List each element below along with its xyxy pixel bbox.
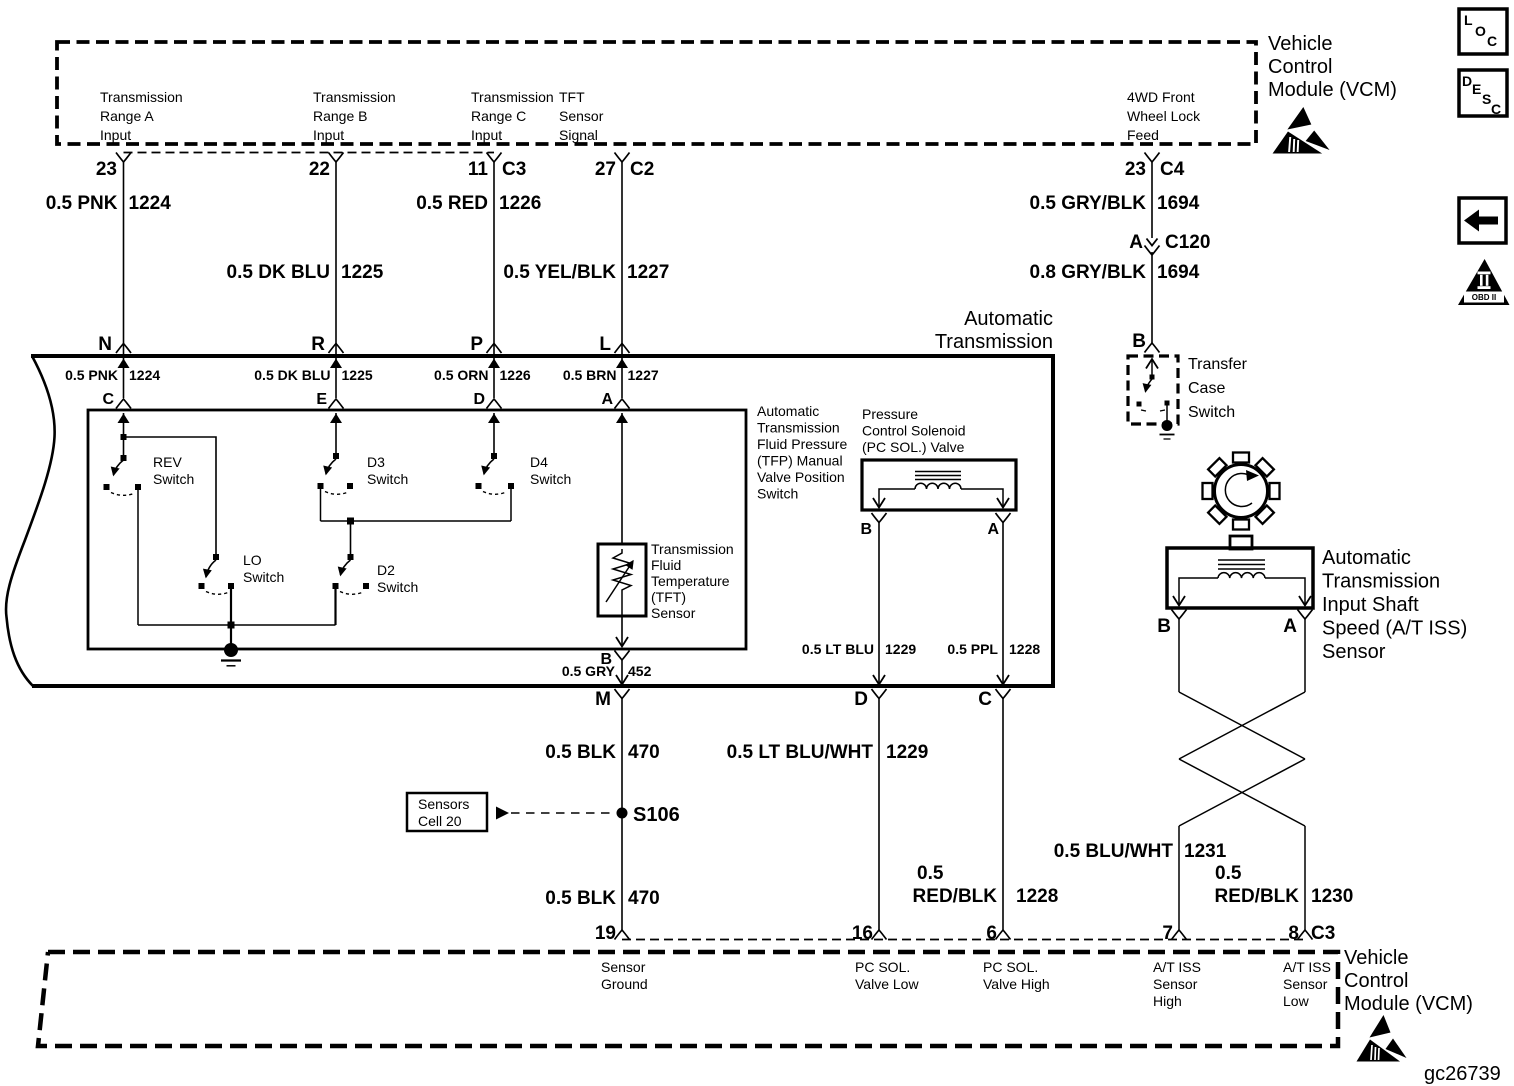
svg-text:PC SOL.: PC SOL.	[983, 959, 1038, 975]
svg-text:PC SOL.: PC SOL.	[855, 959, 910, 975]
svg-text:452: 452	[628, 663, 652, 679]
svg-text:Module (VCM): Module (VCM)	[1268, 79, 1397, 101]
svg-text:1694: 1694	[1157, 193, 1200, 214]
svg-text:1224: 1224	[129, 367, 160, 383]
svg-text:Input: Input	[313, 127, 344, 143]
svg-text:Valve High: Valve High	[983, 976, 1050, 992]
svg-text:8: 8	[1288, 923, 1299, 944]
svg-text:4WD Front: 4WD Front	[1127, 89, 1195, 105]
svg-text:C: C	[1491, 101, 1501, 117]
svg-text:Cell 20: Cell 20	[418, 813, 462, 829]
svg-text:Switch: Switch	[367, 471, 408, 487]
svg-text:Automatic: Automatic	[757, 403, 819, 419]
svg-text:0.5 DK BLU: 0.5 DK BLU	[227, 262, 330, 283]
svg-text:0.5 BLK: 0.5 BLK	[545, 742, 616, 763]
svg-text:1229: 1229	[885, 641, 916, 657]
svg-text:Speed (A/T ISS): Speed (A/T ISS)	[1322, 618, 1467, 640]
svg-text:Range C: Range C	[471, 108, 526, 124]
svg-text:O: O	[1475, 23, 1486, 39]
svg-text:Temperature: Temperature	[651, 573, 730, 589]
svg-text:D: D	[473, 391, 485, 408]
svg-text:1225: 1225	[341, 262, 384, 283]
svg-text:(PC SOL.) Valve: (PC SOL.) Valve	[862, 439, 965, 455]
svg-text:E: E	[1472, 81, 1481, 97]
svg-text:A/T ISS: A/T ISS	[1153, 959, 1201, 975]
svg-text:Sensor: Sensor	[1322, 641, 1386, 663]
svg-text:D2: D2	[377, 562, 395, 578]
svg-text:OBD II: OBD II	[1472, 293, 1496, 302]
svg-text:Sensor: Sensor	[1283, 976, 1328, 992]
svg-text:Valve Position: Valve Position	[757, 469, 845, 485]
svg-text:1229: 1229	[886, 742, 928, 763]
svg-text:L: L	[599, 334, 611, 355]
svg-text:0.5: 0.5	[1215, 863, 1242, 884]
svg-text:Pressure: Pressure	[862, 406, 918, 422]
svg-text:RED/BLK: RED/BLK	[913, 886, 998, 907]
svg-text:27: 27	[595, 159, 616, 180]
svg-text:Case: Case	[1188, 380, 1225, 397]
svg-text:1230: 1230	[1311, 886, 1353, 907]
svg-text:0.5 GRY/BLK: 0.5 GRY/BLK	[1030, 193, 1147, 214]
svg-text:Switch: Switch	[530, 471, 571, 487]
svg-text:C: C	[102, 391, 114, 408]
svg-text:(TFP) Manual: (TFP) Manual	[757, 453, 843, 469]
svg-text:C: C	[978, 689, 992, 710]
svg-text:A: A	[601, 391, 613, 408]
svg-text:470: 470	[628, 888, 660, 909]
svg-text:Sensor: Sensor	[559, 108, 604, 124]
svg-text:Feed: Feed	[1127, 127, 1159, 143]
svg-text:16: 16	[852, 923, 873, 944]
svg-text:22: 22	[309, 159, 330, 180]
svg-text:R: R	[311, 334, 325, 355]
svg-text:C2: C2	[630, 159, 654, 180]
svg-text:0.5 ORN: 0.5 ORN	[434, 367, 488, 383]
svg-text:D3: D3	[367, 454, 385, 470]
svg-text:Transmission: Transmission	[100, 89, 183, 105]
svg-text:Range B: Range B	[313, 108, 367, 124]
svg-text:Module (VCM): Module (VCM)	[1344, 993, 1473, 1015]
svg-text:C4: C4	[1160, 159, 1185, 180]
svg-text:19: 19	[595, 923, 616, 944]
svg-text:A/T ISS: A/T ISS	[1283, 959, 1331, 975]
svg-text:B: B	[860, 521, 872, 538]
svg-text:1227: 1227	[627, 262, 669, 283]
svg-text:0.5 DK BLU: 0.5 DK BLU	[254, 367, 330, 383]
svg-text:D4: D4	[530, 454, 548, 470]
svg-text:0.5: 0.5	[917, 863, 944, 884]
svg-text:D: D	[1462, 73, 1472, 89]
svg-text:Vehicle: Vehicle	[1268, 33, 1333, 55]
svg-text:E: E	[316, 391, 327, 408]
svg-text:1227: 1227	[628, 367, 659, 383]
svg-text:Input: Input	[100, 127, 131, 143]
svg-text:Switch: Switch	[377, 579, 418, 595]
svg-text:Ground: Ground	[601, 976, 648, 992]
svg-text:C3: C3	[502, 159, 526, 180]
svg-text:Switch: Switch	[153, 471, 194, 487]
svg-text:0.5 RED: 0.5 RED	[416, 193, 488, 214]
svg-text:0.5 LT BLU: 0.5 LT BLU	[802, 641, 874, 657]
svg-text:470: 470	[628, 742, 660, 763]
svg-text:0.5 PNK: 0.5 PNK	[65, 367, 118, 383]
svg-text:0.5 BLK: 0.5 BLK	[545, 888, 616, 909]
svg-text:Input: Input	[471, 127, 502, 143]
svg-text:0.5 PNK: 0.5 PNK	[46, 193, 118, 214]
svg-text:B: B	[1157, 616, 1171, 637]
svg-text:Transmission: Transmission	[1322, 571, 1440, 593]
svg-text:Transmission: Transmission	[471, 89, 554, 105]
svg-text:Sensor: Sensor	[1153, 976, 1198, 992]
svg-text:Valve Low: Valve Low	[855, 976, 919, 992]
svg-text:LO: LO	[243, 552, 262, 568]
svg-text:1228: 1228	[1016, 886, 1058, 907]
svg-text:RED/BLK: RED/BLK	[1215, 886, 1300, 907]
svg-text:Control: Control	[1344, 970, 1408, 992]
svg-text:23: 23	[1125, 159, 1146, 180]
svg-text:Sensor: Sensor	[651, 605, 696, 621]
svg-text:Vehicle: Vehicle	[1344, 947, 1409, 969]
svg-text:Transmission: Transmission	[757, 420, 840, 436]
svg-text:S: S	[1482, 91, 1491, 107]
svg-text:(TFT): (TFT)	[651, 589, 686, 605]
svg-text:6: 6	[986, 923, 997, 944]
svg-text:B: B	[1132, 331, 1146, 352]
svg-text:0.5 PPL: 0.5 PPL	[947, 641, 998, 657]
svg-text:gc26739: gc26739	[1424, 1063, 1501, 1085]
svg-text:Sensors: Sensors	[418, 796, 469, 812]
svg-text:Transmission: Transmission	[651, 541, 734, 557]
svg-text:D: D	[854, 689, 868, 710]
svg-text:0.8 GRY/BLK: 0.8 GRY/BLK	[1030, 262, 1147, 283]
svg-text:1224: 1224	[129, 193, 172, 214]
svg-text:L: L	[1464, 12, 1473, 28]
svg-text:Automatic: Automatic	[964, 308, 1053, 330]
svg-text:A: A	[1129, 232, 1143, 253]
svg-text:M: M	[595, 689, 611, 710]
svg-text:Low: Low	[1283, 993, 1310, 1009]
svg-text:A: A	[987, 521, 999, 538]
svg-text:1225: 1225	[342, 367, 373, 383]
svg-text:0.5 BRN: 0.5 BRN	[563, 367, 617, 383]
svg-text:1228: 1228	[1009, 641, 1040, 657]
svg-text:Input Shaft: Input Shaft	[1322, 594, 1419, 616]
svg-text:Range A: Range A	[100, 108, 154, 124]
svg-text:S106: S106	[633, 804, 680, 826]
svg-text:Control Solenoid: Control Solenoid	[862, 423, 966, 439]
svg-text:1694: 1694	[1157, 262, 1200, 283]
svg-text:Transmission: Transmission	[935, 331, 1053, 353]
svg-text:Automatic: Automatic	[1322, 547, 1411, 569]
svg-text:1226: 1226	[500, 367, 531, 383]
svg-text:Fluid: Fluid	[651, 557, 681, 573]
svg-text:Sensor: Sensor	[601, 959, 646, 975]
svg-text:Switch: Switch	[243, 569, 284, 585]
svg-text:High: High	[1153, 993, 1182, 1009]
svg-text:Fluid Pressure: Fluid Pressure	[757, 436, 847, 452]
svg-text:11: 11	[468, 159, 489, 180]
svg-text:TFT: TFT	[559, 89, 585, 105]
svg-text:C: C	[1487, 33, 1497, 49]
svg-text:Switch: Switch	[1188, 404, 1235, 421]
svg-text:7: 7	[1162, 923, 1173, 944]
svg-text:C120: C120	[1165, 232, 1210, 253]
svg-text:1226: 1226	[499, 193, 541, 214]
svg-text:23: 23	[96, 159, 117, 180]
svg-text:C3: C3	[1311, 923, 1335, 944]
svg-text:0.5 LT BLU/WHT: 0.5 LT BLU/WHT	[727, 742, 874, 763]
svg-text:0.5 BLU/WHT: 0.5 BLU/WHT	[1054, 841, 1174, 862]
svg-text:Control: Control	[1268, 56, 1332, 78]
svg-text:P: P	[470, 334, 483, 355]
svg-text:REV: REV	[153, 454, 182, 470]
svg-text:Transfer: Transfer	[1188, 356, 1248, 373]
svg-text:Transmission: Transmission	[313, 89, 396, 105]
svg-text:Wheel Lock: Wheel Lock	[1127, 108, 1201, 124]
svg-text:0.5 YEL/BLK: 0.5 YEL/BLK	[503, 262, 616, 283]
svg-text:N: N	[98, 334, 112, 355]
svg-text:Switch: Switch	[757, 486, 798, 502]
svg-text:0.5 GRY: 0.5 GRY	[562, 663, 616, 679]
svg-text:1231: 1231	[1184, 841, 1227, 862]
svg-text:Signal: Signal	[559, 127, 598, 143]
svg-text:A: A	[1283, 616, 1297, 637]
